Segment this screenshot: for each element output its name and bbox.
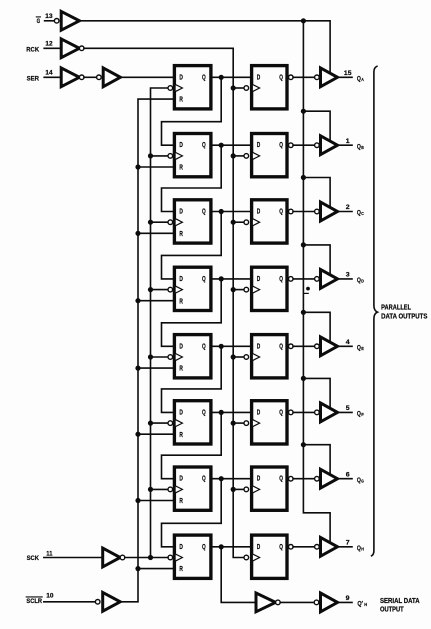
wire G pin lead	[45, 20, 55, 22]
svg-text:11: 11	[46, 550, 52, 557]
FF3 clock bubble	[168, 220, 173, 225]
svg-text:G: G	[37, 18, 41, 25]
FF6 clock caret	[176, 420, 183, 427]
FF8 label R	[179, 564, 183, 573]
svg-text:E: E	[361, 346, 364, 351]
latch L1 box	[252, 66, 287, 109]
pin 9	[346, 595, 350, 602]
latch L5 clock caret	[253, 354, 260, 361]
FF8 clock caret	[176, 554, 183, 561]
svg-text:D: D	[257, 207, 261, 216]
wire shift feed FF7 Q to FF8 D	[162, 479, 222, 547]
inverter U-SCLR input bubble	[95, 600, 100, 605]
svg-text:SER: SER	[27, 75, 39, 82]
buffer QC input bubble	[315, 209, 320, 214]
latch L7 label Q	[279, 474, 283, 483]
FF2 label D	[179, 140, 183, 149]
wire FF5 R branch	[138, 367, 174, 369]
wire SCK pin lead	[44, 557, 103, 559]
svg-text:SCK: SCK	[27, 555, 39, 562]
svg-text:13: 13	[45, 13, 53, 20]
buffer QA input bubble	[315, 75, 320, 80]
svg-text:Q: Q	[279, 341, 283, 350]
latch L2 clock caret	[253, 153, 260, 160]
latch L1 label Q	[279, 72, 283, 81]
FF1 clock bubble	[168, 86, 173, 91]
junction FF6 Q node	[219, 410, 224, 415]
net QF label	[357, 411, 364, 418]
svg-text:D: D	[257, 140, 261, 149]
inverter U-G (output enable buffer)	[61, 11, 79, 30]
FF7 label R	[179, 496, 183, 505]
pin 5	[346, 405, 350, 412]
label PARALLEL DATA OUTPUTS	[381, 305, 428, 321]
latch L8 box	[252, 535, 287, 578]
FF1 label Q	[202, 72, 206, 81]
svg-text:14: 14	[45, 69, 52, 76]
FF3 clock caret	[176, 219, 183, 226]
wire FF2 Q to latch 2 D	[211, 144, 252, 146]
wire QF output lead	[338, 411, 353, 413]
svg-text:Q: Q	[279, 407, 283, 416]
svg-text:4: 4	[346, 339, 350, 346]
flip-flop FF3 box	[174, 200, 211, 243]
net SCLR-bar label	[26, 597, 42, 605]
svg-text:1: 1	[346, 138, 350, 145]
three-state buffer QH	[321, 537, 338, 556]
wire enable stub QG	[303, 445, 330, 474]
FF6 label Q	[202, 407, 206, 416]
wire FF1 Q to latch 1 D	[211, 76, 252, 78]
wire FF3 R branch	[138, 232, 174, 234]
label SERIAL DATA OUTPUT	[380, 598, 420, 613]
svg-text:D: D	[179, 274, 183, 283]
latch L1 clock caret	[253, 85, 260, 92]
FF5 label D	[179, 341, 183, 350]
inverter U-SEROUT1	[256, 593, 276, 612]
flip-flop FF5 box	[174, 335, 211, 378]
junction RCK rail / latch 6 clock	[231, 421, 236, 426]
svg-text:R: R	[179, 564, 183, 573]
net QB label	[357, 143, 364, 150]
wire FF4 clock branch	[151, 289, 169, 291]
svg-text:Q: Q	[357, 545, 361, 552]
inverter U-SEROUT1 output bubble	[276, 600, 281, 605]
wire FF2 R branch	[138, 166, 174, 168]
wire FF8 Q to serial output buffer	[221, 547, 256, 603]
wire QC output lead	[338, 211, 353, 213]
svg-text:R: R	[179, 430, 183, 439]
svg-text:R: R	[179, 229, 183, 238]
junction FF7 Q node	[219, 476, 224, 481]
svg-text:C: C	[361, 211, 364, 216]
junction FF3 Q node	[219, 209, 224, 214]
three-state buffer QD	[321, 270, 338, 289]
junction FF1 Q node	[219, 75, 224, 80]
latch L3 label D	[257, 207, 261, 216]
net RCK label	[26, 47, 39, 54]
wire QH output lead	[338, 546, 353, 548]
net QD label	[357, 277, 364, 284]
wire latch 4 clock branch	[233, 289, 244, 291]
wire FF6 Q to latch 6 D	[211, 411, 252, 413]
buffer U-SCK	[103, 548, 121, 567]
latch L4 clock bubble	[244, 287, 249, 292]
inverter U-SCLR	[103, 592, 121, 611]
latch L3 label Q	[279, 207, 283, 216]
pin 6	[346, 471, 350, 478]
FF6 label R	[179, 430, 183, 439]
svg-text:12: 12	[45, 40, 52, 47]
junction SCK rail / FF4 clock	[148, 287, 153, 292]
wire latch 7 clock branch	[233, 488, 244, 490]
svg-text:H: H	[361, 547, 364, 552]
wire enable stub QB	[303, 111, 330, 140]
FF5 label R	[179, 364, 183, 373]
wire FF2 clock branch	[151, 155, 169, 157]
junction OE rail tap	[301, 18, 306, 23]
wire latch 8 Q to output buffer	[293, 546, 315, 548]
latch L3 output bubble	[289, 209, 294, 214]
net QH-prime label	[357, 601, 367, 608]
latch L3 clock caret	[253, 219, 260, 226]
junction SCK rail / FF7 clock	[148, 487, 153, 492]
latch L1 output bubble	[289, 75, 294, 80]
wire RCK pin lead	[44, 47, 61, 49]
FF8 label D	[179, 542, 183, 551]
svg-text:D: D	[257, 274, 261, 283]
wire enable stub QF	[303, 378, 330, 407]
svg-text:R: R	[179, 95, 183, 104]
latch L6 clock caret	[253, 420, 260, 427]
svg-text:Q: Q	[279, 72, 283, 81]
pin 14	[45, 69, 52, 76]
svg-text:6: 6	[346, 471, 350, 478]
wire latch 2 Q to output buffer	[293, 144, 315, 146]
wire enable stub QD	[303, 245, 330, 274]
junction SCLR rail / FF5 R	[135, 366, 140, 371]
pin 1	[346, 138, 350, 145]
FF1 clock caret	[176, 85, 183, 92]
junction RCK rail / latch 1 clock	[231, 85, 236, 90]
svg-text:Q: Q	[279, 542, 283, 551]
latch L6 label D	[257, 407, 261, 416]
svg-text:D: D	[179, 140, 183, 149]
latch L2 output bubble	[289, 143, 294, 148]
inverter U-SER1	[61, 68, 79, 87]
svg-text:D: D	[257, 72, 261, 81]
junction OE rail / QB enable	[301, 109, 306, 114]
svg-text:D: D	[257, 542, 261, 551]
wire SCK rail	[151, 88, 169, 558]
svg-text:D: D	[257, 407, 261, 416]
pin 12	[45, 40, 52, 47]
latch L2 label Q	[279, 140, 283, 149]
svg-text:SERIAL DATA: SERIAL DATA	[380, 598, 420, 605]
latch L3 box	[252, 200, 287, 243]
svg-text:H: H	[364, 602, 367, 607]
svg-text:Q: Q	[279, 274, 283, 283]
junction SCK rail bottom	[148, 555, 153, 560]
svg-text:D: D	[179, 474, 183, 483]
svg-text:D: D	[257, 474, 261, 483]
FF1 label R	[179, 95, 183, 104]
wire FF5 Q to latch 5 D	[211, 345, 252, 347]
wire FF4 R branch	[138, 300, 174, 302]
FF7 clock caret	[176, 486, 183, 493]
svg-text:3: 3	[346, 272, 350, 279]
latch L7 output bubble	[289, 476, 294, 481]
wire shift feed FF4 Q to FF5 D	[162, 279, 222, 346]
latch L7 label D	[257, 474, 261, 483]
svg-text:PARALLEL: PARALLEL	[381, 305, 412, 312]
latch L5 box	[252, 335, 287, 378]
buffer QF input bubble	[315, 410, 320, 415]
three-state buffer QA	[321, 68, 338, 87]
net QH label	[357, 545, 364, 552]
flip-flop FF1 box	[174, 66, 211, 109]
latch L4 clock caret	[253, 286, 260, 293]
svg-text:D: D	[179, 341, 183, 350]
flip-flop FF2 box	[174, 134, 211, 177]
junction SCLR rail / FF7 R	[135, 498, 140, 503]
FF8 clock bubble	[168, 555, 173, 560]
junction FF2 Q node	[219, 143, 224, 148]
svg-text:D: D	[179, 407, 183, 416]
wire FF5 clock branch	[151, 356, 169, 358]
latch L6 label Q	[279, 407, 283, 416]
svg-text:Q: Q	[357, 210, 361, 217]
wire latch 5 clock branch	[233, 356, 244, 358]
wire FF7 R branch	[138, 500, 174, 502]
junction SCLR rail / FF4 R	[135, 298, 140, 303]
FF7 clock bubble	[168, 487, 173, 492]
FF7 label Q	[202, 474, 206, 483]
svg-text:9: 9	[346, 595, 350, 602]
svg-text:Q: Q	[357, 344, 361, 351]
FF3 label D	[179, 207, 183, 216]
svg-text:R: R	[179, 296, 183, 305]
FF3 label R	[179, 229, 183, 238]
wire QA output lead	[338, 76, 353, 78]
latch L6 clock bubble	[244, 421, 249, 426]
buffer QB input bubble	[315, 143, 320, 148]
latch L5 label Q	[279, 341, 283, 350]
junction FF8 Q node	[219, 544, 224, 549]
FF6 label D	[179, 407, 183, 416]
svg-text:F: F	[361, 412, 364, 417]
net SCK label	[27, 555, 39, 562]
svg-text:D: D	[179, 207, 183, 216]
flip-flop FF4 box	[174, 267, 211, 310]
junction SCK rail / FF5 clock	[148, 354, 153, 359]
FF2 clock bubble	[168, 154, 173, 159]
pin 10	[46, 593, 53, 600]
wire enable stub QE	[303, 312, 330, 341]
wire FF3 clock branch	[151, 221, 169, 223]
flip-flop FF6 box	[174, 401, 211, 444]
wire SCLR rail	[120, 99, 174, 602]
svg-text:SCLR: SCLR	[26, 598, 42, 605]
three-state buffer QG	[321, 469, 338, 488]
pin 7	[346, 539, 350, 546]
inverter U-SER1 output bubble	[79, 75, 84, 80]
FF5 clock bubble	[168, 355, 173, 360]
FF5 label Q	[202, 341, 206, 350]
svg-text:Q: Q	[202, 341, 206, 350]
wire FF7 clock branch	[151, 488, 169, 490]
wire shift feed FF6 Q to FF7 D	[162, 412, 222, 478]
wire FF3 Q to latch 3 D	[211, 211, 252, 213]
latch L4 output bubble	[289, 277, 294, 282]
net SER label	[27, 75, 39, 82]
junction SCK rail / FF3 clock	[148, 220, 153, 225]
junction RCK rail / latch 2 clock	[231, 153, 236, 158]
latch L8 clock bubble	[244, 555, 249, 560]
wire shift feed FF2 Q to FF3 D	[162, 145, 222, 211]
wire QG output lead	[338, 478, 353, 480]
latch L7 clock bubble	[244, 487, 249, 492]
latch L6 output bubble	[289, 410, 294, 415]
svg-text:2: 2	[346, 204, 350, 211]
latch L3 clock bubble	[244, 220, 249, 225]
svg-text:Q: Q	[357, 477, 361, 484]
svg-text:G: G	[361, 478, 364, 483]
wire FF4 Q to latch 4 D	[211, 278, 252, 280]
svg-text:OUTPUT: OUTPUT	[380, 606, 404, 613]
svg-text:Q: Q	[202, 274, 206, 283]
latch L8 label Q	[279, 542, 283, 551]
pin 15	[344, 70, 352, 77]
wire shift feed FF3 Q to FF4 D	[162, 212, 222, 279]
wire FF6 clock branch	[151, 422, 169, 424]
junction OE rail / QD enable	[301, 242, 306, 247]
FF5 clock caret	[176, 354, 183, 361]
svg-text:7: 7	[346, 539, 350, 546]
wire between SER inverters	[84, 76, 97, 78]
wire latch 3 Q to output buffer	[293, 211, 315, 213]
wire shift feed FF5 Q to FF6 D	[162, 346, 222, 412]
svg-text:A: A	[361, 77, 364, 82]
wire latch 3 clock branch	[233, 221, 244, 223]
three-state buffer QC	[321, 202, 338, 221]
FF7 label D	[179, 474, 183, 483]
net QC label	[357, 210, 364, 217]
FF1 label D	[179, 72, 183, 81]
junction OE rail / QG enable	[301, 442, 306, 447]
buffer U-RCK	[61, 39, 79, 58]
net QE label	[357, 344, 364, 351]
three-state buffer QE	[321, 337, 338, 356]
junction OE rail / QF enable	[301, 376, 306, 381]
junction SCLR rail / FF3 R	[135, 231, 140, 236]
buffer U-SCK output bubble	[120, 555, 125, 560]
wire RCK to latch clock rail	[84, 48, 244, 557]
net G-bar (output enable, active low) label	[36, 17, 40, 25]
svg-text:Q: Q	[202, 140, 206, 149]
pin 2	[346, 204, 350, 211]
junction SCLR rail / FF6 R	[135, 432, 140, 437]
inverter U-SEROUT2 input bubble	[314, 600, 319, 605]
wire serial inter-buffer	[280, 601, 314, 603]
wire latch 7 Q to output buffer	[293, 478, 315, 480]
pin 13	[45, 13, 53, 20]
FF2 clock caret	[176, 153, 183, 160]
pin 4	[346, 339, 350, 346]
wire enable stub QC	[303, 178, 330, 207]
pin 11	[46, 550, 52, 557]
FF2 label R	[179, 163, 183, 172]
svg-text:Q: Q	[202, 207, 206, 216]
three-state buffer QB	[321, 136, 338, 155]
latch L2 box	[252, 134, 287, 177]
junction OE rail / QE enable	[301, 310, 306, 315]
FF3 label Q	[202, 207, 206, 216]
wire QE output lead	[338, 345, 353, 347]
wire latch 4 Q to output buffer	[293, 278, 315, 280]
latch L8 clock caret	[253, 554, 260, 561]
latch L5 output bubble	[289, 344, 294, 349]
buffer QE input bubble	[315, 344, 320, 349]
FF8 label Q	[202, 542, 206, 551]
FF4 clock bubble	[168, 287, 173, 292]
FF4 clock caret	[176, 286, 183, 293]
inverter U-SER2 input bubble	[97, 75, 102, 80]
latch L4 label D	[257, 274, 261, 283]
FF4 label Q	[202, 274, 206, 283]
svg-text:Q: Q	[202, 407, 206, 416]
junction SCLR rail / FF8 R	[135, 566, 140, 571]
svg-text:R: R	[179, 364, 183, 373]
buffer U-RCK output bubble	[79, 46, 84, 51]
buffer QD input bubble	[315, 277, 320, 282]
wire QH-prime output lead	[338, 601, 353, 603]
flip-flop FF8 box	[174, 535, 211, 578]
svg-text:Q: Q	[279, 140, 283, 149]
wire latch 1 Q to output buffer	[293, 76, 315, 78]
svg-text:Q: Q	[202, 72, 206, 81]
latch L1 label D	[257, 72, 261, 81]
latch L7 clock caret	[253, 486, 260, 493]
FF2 label Q	[202, 140, 206, 149]
inverter U-G input bubble	[54, 19, 59, 24]
junction OE rail / QC enable	[301, 175, 306, 180]
svg-text:R: R	[179, 496, 183, 505]
wire SCK to FF8 clock	[125, 557, 168, 559]
svg-text:Q: Q	[357, 143, 361, 150]
svg-text:Q: Q	[202, 474, 206, 483]
svg-text:RCK: RCK	[26, 47, 39, 54]
junction SCK rail / FF2 clock	[148, 153, 153, 158]
wire SCLR pin lead	[44, 601, 96, 603]
wire shift feed FF1 Q to FF2 D	[162, 77, 222, 145]
latch L6 box	[252, 401, 287, 444]
latch L5 clock bubble	[244, 355, 249, 360]
wire FF8 R branch	[138, 568, 174, 570]
wire latch 2 clock branch	[233, 155, 244, 157]
svg-text:5: 5	[346, 405, 350, 412]
latch L5 label D	[257, 341, 261, 350]
wire QD output lead	[338, 278, 353, 280]
svg-text:Q: Q	[279, 207, 283, 216]
junction SCLR rail / FF2 R	[135, 164, 140, 169]
latch L2 clock bubble	[244, 154, 249, 159]
wire SER to FF1 D	[120, 76, 174, 78]
latch L4 box	[252, 267, 287, 310]
junction SCK rail / FF6 clock	[148, 421, 153, 426]
latch L8 label D	[257, 542, 261, 551]
svg-text:D: D	[361, 279, 364, 284]
